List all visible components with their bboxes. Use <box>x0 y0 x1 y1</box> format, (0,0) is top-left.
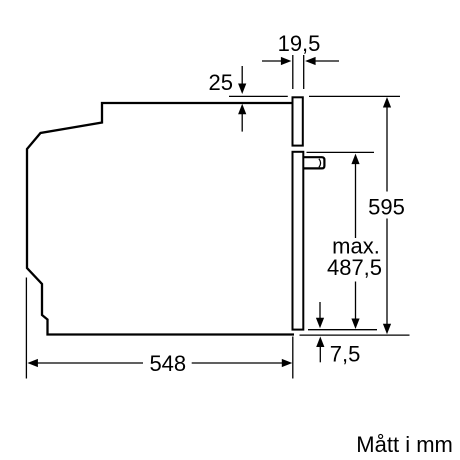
dimension 7,5 up arrow <box>316 337 324 363</box>
extension line 548 right <box>292 337 294 379</box>
dimension 25 up arrow <box>238 104 246 132</box>
reference line top-left (door top level) <box>229 95 288 97</box>
svg-text:19,5: 19,5 <box>278 31 321 56</box>
svg-text:487,5: 487,5 <box>327 255 382 280</box>
reference line bottom-upper (door bottom level) <box>308 329 377 331</box>
extension line 19,5 left <box>292 55 294 89</box>
reference line top-right (door top level) <box>309 95 400 97</box>
door handle <box>303 157 324 168</box>
svg-text:7,5: 7,5 <box>330 342 361 367</box>
dimension 7,5 down arrow <box>316 302 324 328</box>
svg-text:25: 25 <box>209 70 233 95</box>
dimension 25 down arrow <box>238 66 246 94</box>
dimension 595 line <box>383 97 391 334</box>
dimension 19,5 right arrow <box>305 57 339 65</box>
dimension 19,5 left arrow <box>262 57 291 65</box>
oven body outline <box>27 103 294 335</box>
svg-text:548: 548 <box>149 351 186 376</box>
reference line bottom-lower (appliance bottom) <box>300 334 410 336</box>
reference line mid (below control panel) <box>307 151 375 153</box>
extension line 19,5 right <box>303 55 305 89</box>
svg-text:Mått i mm: Mått i mm <box>356 432 453 457</box>
svg-text:595: 595 <box>368 195 405 220</box>
handle end arc <box>319 159 321 168</box>
door lower section <box>293 152 304 330</box>
dimension 487,5 line <box>351 154 359 329</box>
dimension 548 line <box>27 359 292 367</box>
extension line 548 left <box>25 278 27 379</box>
door upper section (control panel) <box>293 97 303 145</box>
